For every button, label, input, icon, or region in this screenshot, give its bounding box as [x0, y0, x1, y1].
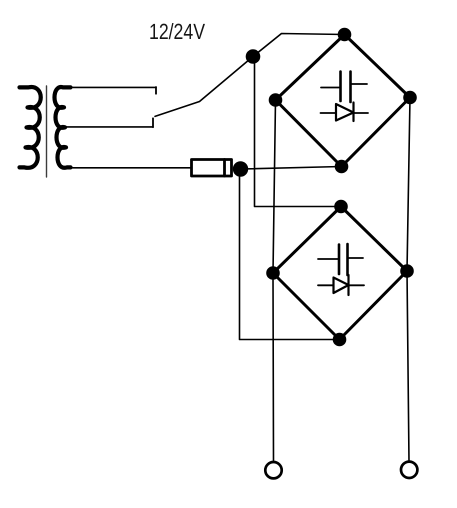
capacitor symbol inside BR2 [318, 244, 363, 275]
diode symbol inside BR2 [318, 275, 364, 295]
bridge rectifier BR2 diamond [273, 207, 407, 340]
diode symbol inside BR1 [321, 103, 369, 122]
wire node B down and right to bridge BR2 bottom vertex [240, 169, 340, 340]
bridge BR2 left vertex dot [266, 266, 280, 280]
switch SW1 lower contact tick [152, 118, 154, 127]
switch SW1 upper contact tick [155, 87, 157, 94]
transformer T1 secondary winding [55, 87, 71, 168]
node A junction dot [246, 49, 261, 64]
wire node B to bridge BR1 bottom vertex [241, 167, 342, 170]
bridge BR1 right vertex dot [403, 91, 417, 105]
bridge BR2 top vertex dot [334, 200, 348, 214]
fuse F1 [192, 160, 232, 177]
wire node A to bridge BR1 top vertex [253, 34, 345, 57]
wire node A down and right to bridge BR2 top vertex [255, 57, 342, 207]
wire secondary bottom tap to fuse [64, 167, 192, 169]
bridge BR2 right vertex dot [400, 264, 414, 278]
wire DC rail right from BR1 through BR2 to terminal [407, 98, 410, 462]
bridge BR1 bottom vertex dot [335, 160, 349, 174]
wire secondary center tap to switch contact [65, 126, 153, 128]
wire DC rail left from BR1 through BR2 to terminal [273, 100, 276, 462]
wire secondary top tap to switch contact [66, 86, 156, 88]
capacitor symbol inside BR1 [321, 72, 367, 103]
terminal J2 right output [401, 462, 417, 478]
node B junction dot [233, 161, 248, 176]
bridge rectifier BR1 diamond [276, 35, 411, 167]
terminal J1 left output [265, 462, 281, 478]
switch SW1 blade [155, 57, 253, 117]
transformer T1 primary winding [20, 87, 41, 168]
bridge BR2 bottom vertex dot [333, 333, 347, 347]
bridge BR1 top vertex dot [338, 28, 352, 42]
transformer T1 core [46, 86, 48, 177]
bridge BR1 left vertex dot [269, 93, 283, 107]
svg-text:12/24V: 12/24V [149, 19, 205, 44]
